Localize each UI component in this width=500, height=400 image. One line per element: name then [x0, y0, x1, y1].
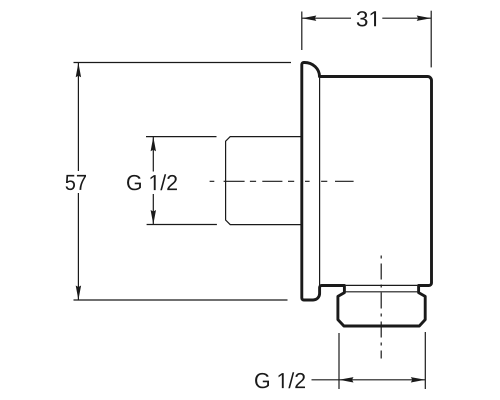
dimension 57: down arrowhead — [76, 286, 81, 301]
dimension 57: bottom extension line — [74, 299, 288, 301]
dimension G 1/2 bottom: left arrowhead — [339, 377, 354, 382]
dimension 31: left arrowhead — [302, 16, 317, 21]
vertical centerline through nut — [380, 256, 382, 359]
dimension G 1/2 bottom: right arrowhead — [411, 377, 426, 382]
dimension 31: value label — [357, 11, 376, 26]
dimension G 1/2 left: value label — [127, 174, 177, 190]
dimension G 1/2 left: top extension line — [146, 136, 217, 138]
dimension G 1/2 bottom: dimension line with leader to label — [312, 379, 426, 381]
horizontal centerline — [210, 180, 354, 182]
dimension G 1/2 left: dimension line — [152, 137, 154, 225]
threaded spigot G 1/2 (thin outline) — [226, 137, 302, 225]
dimension 31: right arrowhead — [417, 16, 432, 21]
part outline: flange, body and nut (thick) — [302, 63, 432, 327]
dimension G 1/2 left: up arrowhead — [151, 137, 156, 152]
dimension 31: left extension line — [301, 12, 303, 51]
dimension G 1/2 left: down arrowhead — [151, 210, 156, 225]
collar ring bottom edge (thin) — [346, 291, 418, 293]
dimension 57: up arrowhead — [76, 63, 81, 78]
dimension 57: value label — [66, 175, 86, 190]
dimension G 1/2 bottom: left extension line — [338, 333, 340, 389]
flange-body edge line (thin) — [319, 78, 321, 286]
dimension G 1/2 bottom: right extension line — [424, 332, 426, 389]
dimension 57: top extension line — [74, 62, 292, 64]
dimension 31: dimension line — [302, 17, 431, 19]
dimension G 1/2 bottom: value label — [255, 372, 305, 388]
collar ring top edge (thin) — [346, 284, 418, 286]
dimension G 1/2 left: bottom extension line — [147, 224, 217, 226]
dimension 31: right extension line — [430, 11, 432, 68]
dimension 57: dimension line — [77, 63, 79, 300]
